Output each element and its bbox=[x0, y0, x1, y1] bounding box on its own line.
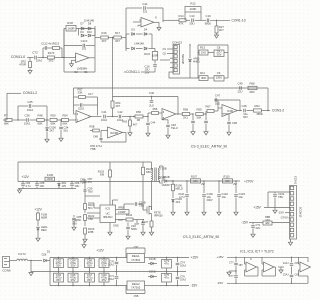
svg-text:10u: 10u bbox=[239, 195, 244, 199]
svg-text:C113: C113 bbox=[81, 39, 88, 43]
svg-text:15AJ: 15AJ bbox=[24, 122, 31, 126]
svg-text:2W: 2W bbox=[201, 183, 205, 186]
svg-text:R17: R17 bbox=[115, 31, 121, 35]
svg-text:561: 561 bbox=[64, 129, 69, 133]
wire to second stage bbox=[95, 37, 100, 39]
diode LED1 bbox=[37, 227, 40, 230]
svg-text:3843AN: 3843AN bbox=[103, 215, 113, 219]
wire bbox=[55, 57, 65, 59]
ground bbox=[235, 211, 237, 212]
wire block bbox=[198, 44, 228, 46]
capacitor C85 bbox=[73, 215, 75, 217]
feedback C47 bbox=[217, 108, 219, 111]
svg-text:D1: D1 bbox=[47, 250, 51, 254]
svg-text:C4B: C4B bbox=[93, 136, 98, 139]
wire to CON11-1 bbox=[154, 68, 156, 73]
svg-text:R64: R64 bbox=[254, 104, 260, 108]
svg-text:35V: 35V bbox=[56, 264, 61, 268]
svg-text:2K1: 2K1 bbox=[183, 116, 188, 120]
svg-text:180U: 180U bbox=[216, 75, 222, 79]
junction dots power rail bbox=[22, 181, 23, 182]
svg-text:TBU: TBU bbox=[278, 195, 283, 199]
svg-text:35V: 35V bbox=[102, 264, 107, 268]
svg-text:1EU: 1EU bbox=[215, 101, 220, 105]
svg-text:C112 4n1: C112 4n1 bbox=[41, 42, 53, 46]
svg-text:10AJ: 10AJ bbox=[101, 118, 108, 122]
wire split bbox=[49, 258, 51, 286]
svg-text:7A7810: 7A7810 bbox=[131, 258, 141, 262]
svg-text:16V: 16V bbox=[145, 71, 150, 75]
resistor R27 4K7 shunt bbox=[216, 20, 217, 21]
ground bbox=[46, 138, 48, 139]
resistor R67 bbox=[207, 110, 214, 113]
svg-text:10AJ: 10AJ bbox=[180, 278, 187, 282]
capacitor C84 bbox=[22, 182, 24, 184]
svg-text:56U: 56U bbox=[77, 218, 82, 222]
svg-text:UC: UC bbox=[106, 212, 110, 216]
svg-text:56U: 56U bbox=[72, 221, 77, 225]
svg-text:R107: R107 bbox=[191, 174, 198, 178]
svg-text:35V: 35V bbox=[102, 278, 107, 282]
svg-text:35V: 35V bbox=[87, 278, 92, 282]
svg-text:-270V: -270V bbox=[280, 215, 288, 219]
svg-text:15AJ: 15AJ bbox=[27, 108, 34, 112]
diode R136 2K7 bbox=[46, 120, 48, 127]
svg-text:H5B: H5B bbox=[90, 147, 95, 151]
ground LED bbox=[37, 237, 39, 238]
capacitor C66 bbox=[85, 259, 95, 268]
svg-text:+12V: +12V bbox=[34, 207, 42, 211]
ground bbox=[192, 131, 194, 132]
resistor R48 bbox=[37, 119, 45, 122]
svg-text:680U: 680U bbox=[205, 22, 212, 26]
svg-text:15AJ: 15AJ bbox=[36, 59, 43, 63]
svg-text:C9?: C9? bbox=[134, 223, 139, 226]
resistor R103b bbox=[84, 228, 87, 234]
svg-text:CON11-1: CON11-1 bbox=[126, 70, 140, 74]
svg-text:4K7: 4K7 bbox=[115, 39, 120, 43]
svg-text:4K7: 4K7 bbox=[116, 104, 121, 108]
capacitor C103 bbox=[235, 181, 237, 193]
capacitor C93 bbox=[136, 220, 138, 224]
svg-text:+12V: +12V bbox=[21, 175, 29, 179]
svg-text:R104: R104 bbox=[126, 213, 133, 217]
op-amp IC2B bbox=[133, 21, 141, 23]
svg-text:-15V: -15V bbox=[217, 281, 223, 285]
capacitor C86 spare bbox=[291, 257, 293, 262]
zener ZD1 bbox=[58, 182, 60, 183]
resistor R123 2K2 bbox=[48, 56, 55, 59]
ground bbox=[228, 131, 230, 132]
svg-text:D10: D10 bbox=[87, 30, 92, 34]
resistor R109 sense bbox=[151, 217, 153, 221]
svg-text:10K: 10K bbox=[193, 180, 198, 183]
svg-text:35V: 35V bbox=[87, 264, 92, 268]
capacitor C102 bbox=[218, 181, 220, 193]
svg-text:F100: F100 bbox=[47, 173, 54, 177]
capacitor C75 bbox=[162, 274, 172, 283]
svg-text:C4B: C4B bbox=[232, 122, 237, 125]
svg-text:680R: 680R bbox=[41, 215, 47, 219]
svg-text:CON1: CON1 bbox=[294, 176, 298, 185]
svg-text:47K: 47K bbox=[179, 22, 184, 26]
svg-text:C7?: C7? bbox=[229, 275, 234, 278]
svg-text:TBU: TBU bbox=[88, 189, 93, 193]
svg-text:R58: R58 bbox=[183, 107, 189, 111]
svg-text:-15V: -15V bbox=[241, 220, 249, 224]
svg-text:SCON10: SCON10 bbox=[299, 207, 303, 218]
svg-text:D8: D8 bbox=[88, 21, 92, 25]
wire bus down bbox=[267, 88, 269, 111]
op-amp IC spare A bbox=[244, 257, 246, 264]
diode D106 bbox=[172, 199, 174, 201]
svg-text:REG1: REG1 bbox=[132, 254, 140, 258]
capacitor C36 bridge bbox=[17, 106, 19, 120]
svg-text:200V: 200V bbox=[207, 198, 213, 202]
ground c93 bbox=[142, 231, 144, 232]
svg-text:4K7: 4K7 bbox=[102, 39, 107, 43]
wire mid rail bbox=[31, 271, 126, 273]
capacitor C48s bbox=[99, 137, 102, 139]
svg-text:33K: 33K bbox=[78, 91, 83, 95]
resistor R108 680R bbox=[37, 213, 40, 220]
svg-text:CON1-2: CON1-2 bbox=[272, 109, 284, 113]
capacitor C87 spare bbox=[290, 274, 294, 276]
svg-text:5K1: 5K1 bbox=[88, 206, 93, 210]
wire bbox=[121, 37, 126, 39]
wire sub loop bbox=[123, 132, 127, 134]
capacitor C100 bbox=[203, 181, 205, 193]
svg-text:CON13: CON13 bbox=[172, 41, 182, 45]
wire bbox=[27, 57, 34, 59]
op-amp IC1B bbox=[162, 109, 176, 120]
svg-text:4K7: 4K7 bbox=[133, 122, 138, 126]
resistor R14 47K bbox=[177, 19, 179, 21]
svg-text:R115: R115 bbox=[144, 53, 150, 56]
svg-text:4R0: 4R0 bbox=[201, 76, 207, 80]
svg-text:R7: R7 bbox=[4, 114, 8, 118]
wire vref bbox=[112, 200, 114, 205]
svg-text:R56: R56 bbox=[153, 107, 158, 111]
svg-text:R48: R48 bbox=[37, 113, 43, 117]
svg-text:47u: 47u bbox=[164, 276, 169, 280]
svg-text:R5B: R5B bbox=[90, 126, 95, 129]
svg-text:1N4007: 1N4007 bbox=[161, 183, 171, 187]
capacitor C41 bbox=[103, 115, 105, 119]
svg-text:R11: R11 bbox=[200, 71, 205, 75]
ground bbox=[60, 137, 62, 138]
resistor R61 sub bbox=[133, 116, 134, 117]
ground op-amp1 bbox=[72, 59, 76, 61]
node junction bbox=[42, 57, 43, 58]
capacitor C19 bbox=[206, 19, 208, 23]
long feedback bus bbox=[74, 87, 269, 89]
svg-text:R113: R113 bbox=[53, 42, 60, 46]
resistor R113 bbox=[53, 47, 60, 50]
capacitor C104 bridge bbox=[268, 191, 290, 193]
resistor R56 series bbox=[152, 112, 159, 115]
svg-text:SW/LMP: SW/LMP bbox=[181, 54, 185, 65]
svg-text:IC1, IC3, IC7 = TL072: IC1, IC3, IC7 = TL072 bbox=[240, 249, 274, 253]
IC5 UC3843AN bbox=[100, 205, 116, 223]
svg-text:C47: C47 bbox=[215, 93, 221, 97]
ground bbox=[129, 132, 131, 133]
ground bbox=[203, 211, 205, 212]
svg-text:REG2: REG2 bbox=[132, 282, 140, 286]
svg-text:331: 331 bbox=[143, 10, 148, 14]
resistor R16 4K7 bbox=[101, 36, 109, 39]
svg-text:66K: 66K bbox=[63, 122, 68, 126]
ground bbox=[186, 211, 188, 212]
svg-text:GND: GND bbox=[113, 225, 119, 228]
capacitor C34 bbox=[60, 120, 62, 126]
svg-text:C17: C17 bbox=[88, 92, 93, 96]
resistor R54 bbox=[62, 119, 69, 122]
svg-text:0R: 0R bbox=[137, 118, 141, 122]
svg-text:4HE3: 4HE3 bbox=[193, 60, 200, 64]
ground bbox=[29, 69, 31, 71]
resistor R103 VCC bbox=[109, 162, 111, 170]
svg-text:68K: 68K bbox=[4, 122, 9, 126]
svg-text:22U: 22U bbox=[237, 90, 242, 94]
svg-text:380R: 380R bbox=[256, 112, 262, 116]
svg-text:+15V: +15V bbox=[216, 255, 223, 259]
wire bbox=[112, 116, 118, 118]
svg-text:10U: 10U bbox=[75, 184, 80, 188]
svg-text:EHB: EHB bbox=[88, 230, 94, 234]
svg-text:R59: R59 bbox=[196, 107, 202, 111]
svg-text:R16: R16 bbox=[101, 31, 107, 35]
wire output stage2 bbox=[162, 8, 164, 22]
svg-text:-15V: -15V bbox=[278, 210, 284, 214]
svg-text:470R: 470R bbox=[19, 63, 26, 67]
capacitor C70 bbox=[116, 258, 118, 262]
capacitor C71 bbox=[116, 272, 118, 276]
svg-text:1N4148: 1N4148 bbox=[134, 42, 144, 46]
svg-text:100K: 100K bbox=[190, 7, 197, 11]
svg-text:10K: 10K bbox=[225, 180, 230, 183]
svg-text:+15V: +15V bbox=[253, 205, 261, 209]
svg-text:C44: C44 bbox=[151, 122, 156, 125]
svg-text:560U: 560U bbox=[131, 227, 137, 231]
svg-text:10V: 10V bbox=[62, 184, 67, 188]
resistor R68 on bus bbox=[248, 86, 257, 89]
regulator REG2 bbox=[126, 285, 127, 287]
capacitor C11 feedback bbox=[126, 7, 142, 9]
capacitor C72 bbox=[34, 56, 36, 60]
svg-text:7A7910: 7A7910 bbox=[131, 285, 141, 289]
svg-text:4K7: 4K7 bbox=[219, 28, 224, 32]
wire bbox=[38, 57, 48, 59]
capacitor C48 gnd bbox=[162, 119, 168, 121]
svg-text:R67: R67 bbox=[205, 105, 211, 109]
resistor R64 380R bbox=[254, 109, 262, 112]
node feedback bbox=[63, 57, 64, 58]
svg-text:2U2: 2U2 bbox=[149, 104, 154, 108]
resistor R101 bbox=[84, 204, 87, 210]
capacitor C62 bbox=[54, 259, 64, 268]
wire main rail bbox=[18, 181, 160, 183]
capacitor C57 225J bbox=[74, 104, 80, 106]
svg-text:D2: D2 bbox=[163, 52, 167, 56]
svg-text:R12: R12 bbox=[190, 2, 196, 6]
resistor R115 100R bbox=[152, 48, 155, 50]
svg-text:IC1B: IC1B bbox=[227, 109, 233, 113]
svg-text:1K0: 1K0 bbox=[201, 51, 206, 55]
ground bbox=[147, 132, 149, 133]
svg-text:160R: 160R bbox=[47, 177, 53, 181]
capacitor C44 gnd bbox=[205, 113, 206, 114]
ground mid bbox=[83, 244, 85, 245]
svg-text:CON11-2: CON11-2 bbox=[23, 91, 37, 95]
svg-text:50U: 50U bbox=[189, 22, 194, 26]
svg-text:47u: 47u bbox=[88, 180, 93, 184]
svg-text:R54: R54 bbox=[62, 113, 68, 117]
ground bbox=[205, 131, 207, 132]
svg-text:3CK4B: 3CK4B bbox=[110, 132, 118, 135]
capacitor C44 shunt bbox=[147, 116, 148, 117]
wire bbox=[42, 48, 44, 58]
svg-text:R13: R13 bbox=[200, 46, 206, 50]
svg-text:T10B: T10B bbox=[160, 167, 167, 171]
svg-text:C8: C8 bbox=[217, 46, 221, 50]
svg-text:EM: EM bbox=[266, 222, 270, 225]
capacitor C40 on feedback bbox=[151, 96, 152, 97]
resistor R17 4K7 bbox=[114, 36, 122, 39]
svg-text:+12V: +12V bbox=[96, 248, 104, 252]
svg-text:C11: C11 bbox=[142, 2, 148, 6]
wire HV rail bbox=[168, 180, 240, 182]
svg-text:56K: 56K bbox=[197, 116, 202, 120]
wire CON13 bottom loop bbox=[170, 66, 174, 68]
svg-text:CON1-10: CON1-10 bbox=[232, 18, 246, 22]
wire bbox=[108, 37, 114, 39]
svg-text:10u: 10u bbox=[222, 195, 227, 199]
svg-text:18?: 18? bbox=[239, 264, 244, 267]
svg-text:CON6: CON6 bbox=[2, 269, 11, 273]
ground bbox=[218, 211, 220, 212]
svg-text:R50: R50 bbox=[136, 110, 142, 114]
capacitor C74 bbox=[177, 258, 179, 263]
capacitor C46 gnd bbox=[222, 113, 229, 115]
svg-text:35V: 35V bbox=[56, 278, 61, 282]
svg-text:35V: 35V bbox=[71, 278, 76, 282]
svg-text:22U: 22U bbox=[256, 226, 261, 230]
svg-text:R18: R18 bbox=[67, 21, 73, 25]
op-amp IC1A row2 bbox=[75, 119, 77, 120]
resistor R102 bbox=[84, 215, 87, 221]
svg-text:R110: R110 bbox=[223, 174, 230, 178]
svg-text:35V: 35V bbox=[217, 53, 222, 57]
resistor R18 160R bbox=[64, 28, 66, 30]
ground rail3 bbox=[19, 189, 21, 191]
svg-text:C38: C38 bbox=[24, 113, 30, 117]
resistor R60 from feedback bbox=[112, 116, 113, 117]
capacitor C60 bbox=[99, 259, 109, 268]
ground spare1 bbox=[235, 270, 236, 271]
svg-text:35V: 35V bbox=[71, 264, 76, 268]
svg-text:C42: C42 bbox=[117, 110, 123, 114]
svg-text:C48: C48 bbox=[241, 104, 247, 108]
resistor R63 shunt bbox=[129, 116, 130, 117]
svg-text:+15V: +15V bbox=[191, 256, 199, 260]
svg-text:68K: 68K bbox=[51, 122, 56, 126]
capacitor C64 bbox=[68, 259, 78, 268]
wire mid rail right bbox=[126, 271, 186, 273]
resistor R5B sub bbox=[93, 129, 100, 132]
capacitor C69 bbox=[99, 273, 109, 282]
capacitor C101 bbox=[186, 181, 188, 193]
svg-text:D4: D4 bbox=[144, 28, 148, 32]
wire bbox=[31, 260, 42, 262]
wire bbox=[76, 28, 95, 30]
resistor R105 bbox=[142, 162, 144, 167]
capacitor C113 bbox=[64, 45, 82, 47]
capacitor C48b bbox=[243, 109, 245, 113]
capacitor C76 bbox=[177, 272, 179, 277]
wire op-amp1 out bbox=[91, 116, 102, 118]
op-amp IC3A output stage bbox=[222, 105, 238, 117]
op-amp IC4B sub-circuit bbox=[108, 127, 123, 138]
svg-text:D10B: D10B bbox=[163, 175, 170, 179]
capacitor C45 gnd bbox=[192, 113, 193, 114]
svg-text:D7: D7 bbox=[80, 21, 84, 25]
capacitor C91 bbox=[252, 223, 254, 225]
resistor R58 bbox=[182, 113, 190, 116]
capacitor C112 bbox=[44, 46, 46, 50]
svg-text:C9: C9 bbox=[217, 71, 221, 75]
svg-text:10AJ: 10AJ bbox=[180, 264, 187, 268]
svg-text:C13: C13 bbox=[189, 14, 195, 18]
svg-text:2W: 2W bbox=[233, 183, 237, 186]
op-amp IC spare B bbox=[261, 257, 263, 264]
svg-text:C7?: C7? bbox=[229, 262, 234, 265]
svg-text:IRF630: IRF630 bbox=[154, 214, 163, 218]
svg-text:-15V: -15V bbox=[191, 283, 199, 287]
wire bbox=[30, 119, 37, 121]
feedback R57 C17 bbox=[74, 113, 77, 115]
svg-text:C58: C58 bbox=[134, 294, 139, 298]
capacitor C78 spare bbox=[234, 275, 238, 277]
ground bbox=[216, 33, 218, 35]
capacitor C42 bbox=[118, 115, 120, 119]
svg-text:4.7u: 4.7u bbox=[26, 184, 32, 188]
wire output bbox=[89, 57, 95, 59]
svg-text:C35: C35 bbox=[27, 100, 33, 104]
resistor R106 bbox=[172, 180, 173, 181]
wire out bbox=[238, 110, 243, 112]
svg-text:10AJ: 10AJ bbox=[108, 263, 115, 267]
capacitor C92 bbox=[127, 223, 129, 227]
svg-text:C97: C97 bbox=[134, 245, 139, 249]
svg-text:C49: C49 bbox=[237, 81, 243, 85]
svg-text:+270V: +270V bbox=[244, 179, 254, 183]
wire bbox=[7, 92, 21, 94]
svg-text:FIL72: FIL72 bbox=[18, 252, 26, 256]
svg-text:2K2: 2K2 bbox=[49, 59, 54, 63]
resistor R59 bbox=[196, 113, 204, 116]
svg-text:100R: 100R bbox=[152, 55, 158, 58]
zener R63 bbox=[189, 44, 190, 45]
capacitor C65 bbox=[68, 273, 78, 282]
svg-text:R173: R173 bbox=[48, 51, 55, 55]
svg-text:4K2: 4K2 bbox=[176, 200, 181, 204]
svg-text:C41: C41 bbox=[101, 110, 107, 114]
svg-text:4.7U: 4.7U bbox=[179, 195, 185, 199]
svg-text:CS-3_ELEC_ARTW_90: CS-3_ELEC_ARTW_90 bbox=[191, 145, 228, 149]
svg-text:D9: D9 bbox=[80, 30, 84, 34]
capacitor C67 bbox=[85, 273, 95, 282]
